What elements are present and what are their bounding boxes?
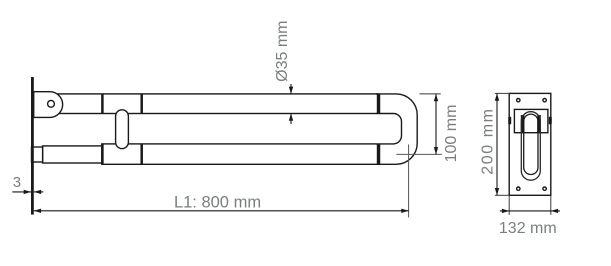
dim 100 arrow down xyxy=(434,147,438,154)
ext line L1 right xyxy=(408,145,410,218)
dim Ø35 arrow up xyxy=(289,114,293,121)
dim 200 arrow down xyxy=(495,188,499,195)
dim 3 arrow left xyxy=(34,190,41,194)
dim L1 arrow left xyxy=(34,209,41,213)
folded tube outer xyxy=(521,112,540,181)
dim L1 line xyxy=(34,210,409,212)
ext 132 left xyxy=(508,195,510,215)
dim 3 left line xyxy=(12,191,31,193)
folded tube inner xyxy=(524,114,538,174)
U-bend outer xyxy=(376,94,417,164)
ext 200 bottom xyxy=(495,194,509,196)
joint J3 xyxy=(378,94,381,164)
connector capsule xyxy=(116,110,129,149)
dim 132 arrow right-in xyxy=(502,209,509,213)
dim Ø35 leader lower xyxy=(290,114,292,124)
ext 200 top xyxy=(495,92,509,94)
ext 132 right xyxy=(550,195,552,215)
dim 100 arrow up xyxy=(434,94,438,101)
screw hole BL xyxy=(517,187,520,190)
screw hole TR xyxy=(543,99,546,102)
wall plate line xyxy=(31,77,34,215)
tube side bar left xyxy=(521,115,525,133)
dim 200 line xyxy=(496,93,498,195)
screw hole TL xyxy=(517,99,520,102)
dim Ø35 arrow down xyxy=(289,87,293,94)
lower tube stub xyxy=(43,146,102,163)
dim 200 arrow up xyxy=(495,93,499,100)
dim 3 arrow right xyxy=(24,190,31,194)
svg-text:100 mm: 100 mm xyxy=(443,105,460,163)
dim 100 line xyxy=(435,94,437,154)
dim 132 arrow left-in xyxy=(551,209,558,213)
ext line 100 top xyxy=(420,93,441,95)
svg-text:Ø35 mm: Ø35 mm xyxy=(274,21,291,82)
tube side bar right xyxy=(537,115,541,133)
svg-text:132 mm: 132 mm xyxy=(499,220,557,237)
U-bend inner xyxy=(376,114,402,144)
svg-text:L1: 800 mm: L1: 800 mm xyxy=(174,193,261,211)
hinge housing xyxy=(514,109,548,132)
joint J2 xyxy=(140,94,143,164)
wall flange xyxy=(32,147,43,162)
hinge hole xyxy=(48,100,55,107)
ext line 100 bottom xyxy=(396,153,442,155)
screw hole BR xyxy=(543,187,546,190)
pivot pin right xyxy=(549,117,552,125)
svg-text:3: 3 xyxy=(13,174,21,191)
dim 3 right line xyxy=(34,191,43,193)
upper tube xyxy=(45,94,378,114)
hinge plate xyxy=(34,92,63,118)
joint J1 xyxy=(101,94,104,164)
svg-text:200 mm: 200 mm xyxy=(479,107,496,174)
front plate xyxy=(509,93,551,195)
dim Ø35 leader upper xyxy=(290,84,292,94)
dim L1 arrow right xyxy=(401,209,408,213)
dim 132 line xyxy=(500,210,560,212)
lower tube main xyxy=(102,144,378,164)
pivot pin left xyxy=(508,117,511,125)
